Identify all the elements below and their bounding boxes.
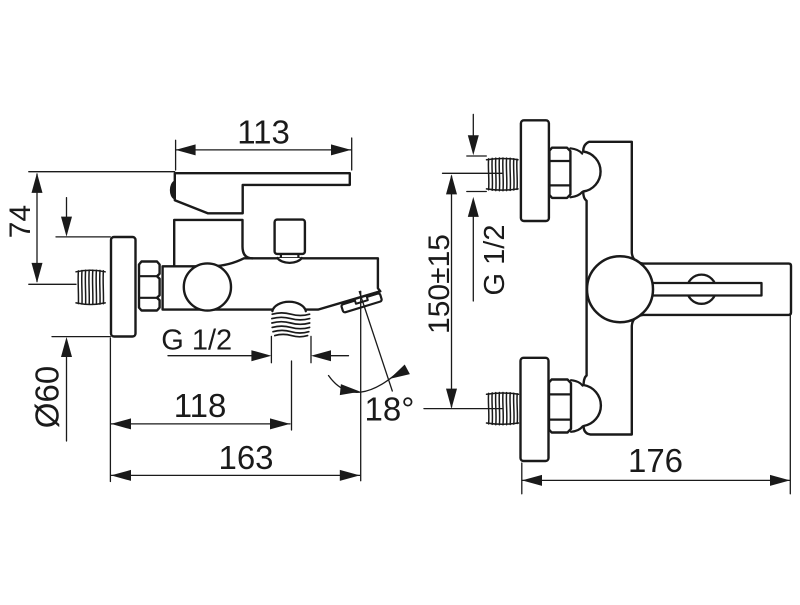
arrow 176 left <box>522 475 542 486</box>
arrow 118 left <box>111 418 131 429</box>
faucet body column with handle base plate (right view) <box>583 142 791 435</box>
arrow 74 down <box>32 263 43 283</box>
handle hinge crescent (left view) <box>171 181 175 199</box>
shower outlet dome (left view) <box>272 302 305 311</box>
svg-text:74: 74 <box>4 205 37 238</box>
lever bar (right view) <box>649 283 762 296</box>
lower wall flange (right view) <box>521 358 549 461</box>
arrow G 1/2 left-dim left-pointing <box>311 350 331 361</box>
diverter knob (left view) <box>275 220 305 254</box>
dim 176 extension lines <box>522 316 791 494</box>
shower outlet thread (left view) <box>272 313 310 337</box>
wall connector thread (left view) <box>76 270 105 304</box>
arrow G 1/2 right-dim down <box>468 135 479 155</box>
svg-text:G 1/2: G 1/2 <box>161 325 232 357</box>
diverter neck <box>281 254 299 258</box>
arrow 150 down <box>446 389 457 409</box>
arrow G 1/2 right-dim up <box>468 197 479 217</box>
lower thread centerline (right view) <box>424 408 502 410</box>
dim 74 extension line (handle top) <box>29 171 175 173</box>
diverter collar <box>277 258 301 263</box>
upper hex nut (right view) <box>549 148 570 198</box>
arrow D60 down <box>61 217 72 237</box>
lower hex nut (right view) <box>549 380 571 433</box>
lower wall thread (right view) <box>487 393 519 425</box>
faucet body block (left view) <box>163 258 381 309</box>
dim D60 leader lines <box>66 198 68 441</box>
upper thread centerline (right view) <box>443 172 503 174</box>
arrow 18 arc right <box>390 365 410 379</box>
svg-text:113: 113 <box>237 114 290 151</box>
svg-text:G 1/2: G 1/2 <box>479 225 511 296</box>
arrow G 1/2 left-dim right-pointing <box>251 350 271 361</box>
svg-text:Ø60: Ø60 <box>29 366 66 428</box>
angle 18 vertical reference line <box>360 291 362 480</box>
dim 113 line <box>176 149 351 151</box>
lever handle with bar (left view) <box>175 173 350 213</box>
lower eccentric union connectors (right view) <box>571 380 583 432</box>
dim G 1/2 (left) lines <box>168 355 349 357</box>
dim 150+-15 line (right view) <box>451 176 453 407</box>
arrow 74 up <box>32 173 43 193</box>
dimension texts <box>4 114 683 479</box>
upper eccentric union connectors (right view) <box>570 148 582 197</box>
arrowheads <box>32 135 791 486</box>
dim 163 line <box>111 474 360 476</box>
svg-text:150±15: 150±15 <box>423 234 456 334</box>
wall flange (left view) <box>111 237 136 337</box>
cartridge circle (right view) <box>587 256 653 322</box>
dim 118/163 left extension line <box>109 338 111 482</box>
arrow 113 right <box>331 144 351 155</box>
cartridge circle (left view) <box>184 263 231 310</box>
handle screw boss circle (right view) <box>687 275 716 304</box>
upper wall thread (right view) <box>487 158 519 191</box>
spout end aerator flag (left view) <box>341 292 383 313</box>
wall thread centerline (left view) <box>29 283 76 285</box>
arrow 150 up <box>446 174 457 194</box>
angle 18 slanted reference line <box>359 292 392 392</box>
angle 18 dimension arc <box>329 367 405 392</box>
svg-text:118: 118 <box>174 387 227 424</box>
svg-text:18°: 18° <box>365 391 415 428</box>
hex nut (left view) <box>139 262 160 311</box>
arrow D60 up <box>61 337 72 357</box>
cartridge cap under handle (left view) <box>174 220 253 266</box>
dim 74 line <box>36 174 38 282</box>
outlet thread extension lines <box>271 336 311 362</box>
arrow 113 left <box>176 144 196 155</box>
dim 113 extension lines <box>176 138 352 170</box>
dim 118 line <box>111 423 290 425</box>
upper wall flange (right view) <box>521 120 549 221</box>
svg-text:176: 176 <box>628 442 683 479</box>
svg-text:163: 163 <box>218 439 273 476</box>
dim G 1/2 (right) leader and ticks <box>472 114 474 301</box>
arrow 18 arc left <box>340 384 360 395</box>
dim D60 extension lines <box>52 237 110 337</box>
dim 118 right extension line (outlet centre) <box>291 361 293 430</box>
arrow 163 right <box>340 470 360 481</box>
dim 176 line <box>522 479 790 481</box>
arrow 176 right <box>770 475 790 486</box>
arrow 118 right <box>270 418 290 429</box>
arrow 163 left <box>111 470 131 481</box>
